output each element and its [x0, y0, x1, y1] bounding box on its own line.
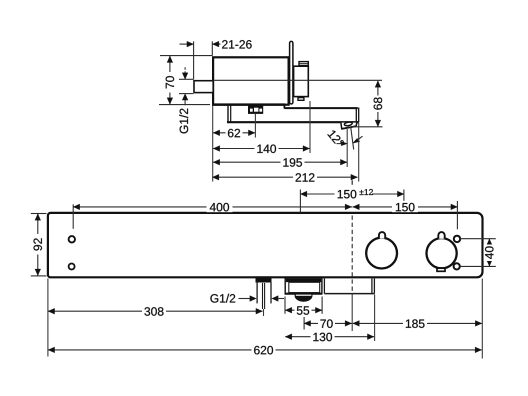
dimension 92 (bar height)	[31, 214, 47, 276]
body bottom line (side)	[212, 103, 285, 105]
spout inner outline	[289, 282, 320, 292]
wall escutcheon plate (vertical)	[290, 41, 293, 104]
dimension 150 (top right, centerline to index circles)	[352, 201, 457, 229]
inlet pipe height callout arrows (G1/2)	[179, 67, 193, 105]
supply connection flange (black) below bar	[256, 277, 272, 283]
aerator (front, below spout)	[295, 294, 313, 302]
dimension 620 (overall width)	[48, 345, 482, 356]
temperature control knob (left)	[366, 238, 397, 269]
label G1/2 with arrow (front supply)	[210, 294, 284, 303]
mounting body bottom tab	[298, 98, 304, 101]
spout housing (front)	[285, 278, 322, 294]
spout top black band	[286, 279, 321, 282]
dimension 212	[212, 172, 357, 183]
mounting body top tab	[299, 62, 308, 66]
spout bottom line (thick)	[285, 293, 323, 295]
dimension 140	[213, 143, 309, 154]
dimension 70 (body height, side)	[159, 56, 212, 105]
dimension 195	[213, 157, 347, 168]
dimension 21-26 (top)	[180, 40, 252, 79]
supply stub body	[256, 282, 258, 303]
12 deg angle arrows	[341, 141, 347, 145]
centerline extension (solid) below housing	[351, 295, 353, 332]
left reference extension line (body front plane) down to dims	[212, 106, 214, 182]
wall fixing holes (left)	[69, 236, 75, 242]
dimension 70 (front, aerator center to centerline)	[304, 317, 352, 330]
dimension 308 (bar left edge to supply pipe center)	[48, 306, 262, 317]
extension line bar right edge down to 185/620 dims	[481, 279, 483, 359]
centerline (dash) above bar	[351, 180, 353, 185]
dimension 55 (spout width)	[285, 297, 322, 316]
volume knob bottom tab	[437, 268, 445, 271]
extension line from spout right end down to 212 dim	[358, 123, 360, 182]
step jog between body bottom and spout top	[283, 104, 285, 109]
small index circles right of volume knob	[454, 236, 460, 242]
volume control knob (right)	[427, 238, 457, 268]
dimension 68 (right side)	[352, 81, 384, 127]
extension line from housing right edge down to 130 dim	[374, 295, 376, 342]
label G1/2 (side view, rotated)	[179, 109, 188, 134]
supply pipe (narrow)	[262, 283, 264, 309]
dimension 185 (centerline to bar right end)	[353, 318, 482, 329]
aerator vertical reference/extension line	[346, 129, 348, 167]
spout bottom line	[227, 121, 359, 123]
lower housing (right of spout)	[323, 278, 325, 293]
volume knob top button	[438, 232, 444, 239]
spray direction line (12 deg from vertical)	[351, 127, 354, 150]
dimension 40 (index circle spacing, right)	[460, 239, 496, 267]
extension line below nut (to 62 dim)	[254, 114, 256, 138]
aerator nozzle (tilted 12deg) at spout end	[341, 122, 357, 129]
temperature knob top button	[379, 232, 385, 239]
extension line bar left edge down to 308/620 dims	[47, 279, 49, 357]
thermostat body (side profile)	[213, 57, 289, 104]
spout left end double edge	[227, 105, 229, 123]
centerline dashed through bar	[351, 216, 353, 295]
dimension 130 (spout left edge to housing right edge)	[285, 331, 374, 342]
main bar (front)	[48, 213, 483, 277]
dimension 150+-12 (supply spacing)	[300, 188, 404, 213]
dimension 400 (top of front view)	[73, 202, 352, 229]
extension line from mounting body right edge down to 140 dim	[309, 101, 311, 153]
G1/2 inlet pipe (side view)	[194, 81, 213, 93]
internal horizontal line through body, escutcheon and mount (pipe-top plane, also 68-dim top extension)	[213, 79, 382, 81]
dimension 62	[213, 128, 255, 139]
label 12deg	[327, 129, 344, 147]
spout top line (stepped, right of body)	[284, 107, 357, 109]
outlet connector nut under body	[248, 105, 263, 114]
concealed mounting body behind plate	[294, 66, 309, 96]
spout right end double edge	[355, 108, 357, 123]
